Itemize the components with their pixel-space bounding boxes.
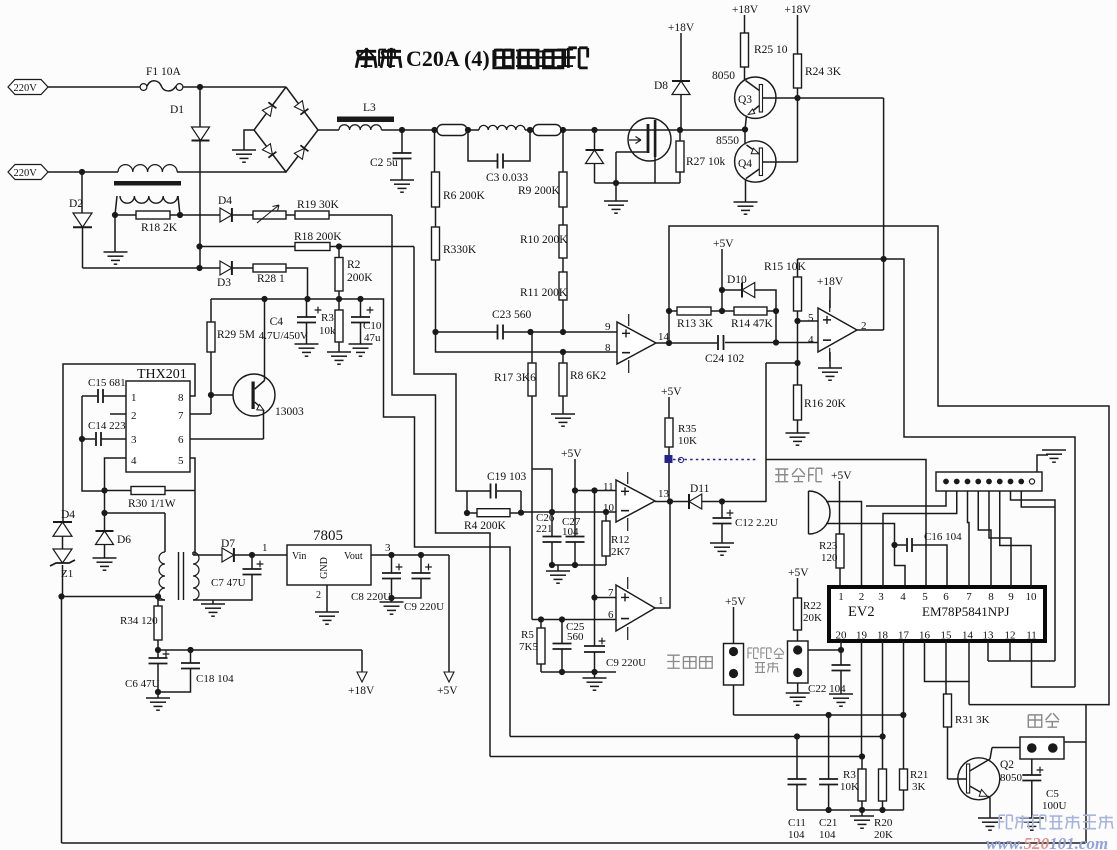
- connector display header: [936, 472, 1042, 491]
- wire left tall column: [61, 597, 63, 844]
- title text: [356, 46, 588, 71]
- svg-text:D4: D4: [61, 509, 75, 521]
- svg-text:8050: 8050: [712, 70, 735, 82]
- node 13003 base: [208, 392, 214, 398]
- svg-text:5: 5: [922, 591, 928, 603]
- svg-text:4: 4: [131, 455, 137, 467]
- wire R24-Q4 base column: [797, 88, 799, 162]
- label fan: [1028, 713, 1059, 727]
- svg-text:1: 1: [658, 595, 664, 607]
- bridge diode bottom-left: [262, 144, 276, 158]
- resistor R31 3K: [944, 694, 990, 727]
- resistor R14 47K: [722, 307, 776, 330]
- capacitor C11 104: [788, 737, 807, 842]
- diode D7: [221, 538, 235, 562]
- svg-text:+18V: +18V: [732, 4, 759, 16]
- node C18 top: [187, 647, 193, 653]
- wire R11 down to node9: [562, 300, 564, 332]
- ground C12: [710, 543, 734, 555]
- wire top bus (op1 out loop): [669, 226, 1109, 706]
- wire link col 11-7: [594, 491, 596, 598]
- wire fanout d2 pin3: [883, 491, 957, 587]
- ground C7: [201, 600, 225, 616]
- wire pins 12 13 gnd: [988, 641, 1055, 661]
- svg-text:1: 1: [131, 392, 137, 404]
- svg-text:C21: C21: [819, 817, 837, 829]
- node R13-R14: [719, 308, 725, 314]
- resistor R10 200K: [520, 207, 568, 258]
- node C12 top: [719, 498, 725, 504]
- resistor R13 3K: [669, 307, 722, 330]
- svg-text:200K: 200K: [347, 272, 373, 284]
- capacitor C21 104: [819, 715, 838, 841]
- wire pin8 loop: [63, 364, 195, 521]
- power +5V buzzer: [831, 470, 852, 534]
- node C9 top: [418, 552, 424, 558]
- node op13 out: [667, 498, 673, 504]
- ground bridge: [232, 150, 256, 162]
- wire R17 lower column: [531, 396, 533, 620]
- terminal 220V line: [8, 80, 48, 95]
- diode D6: [96, 513, 132, 558]
- blue marker line: [665, 455, 759, 463]
- svg-text:R330K: R330K: [443, 244, 477, 256]
- svg-text:+5V: +5V: [561, 448, 582, 460]
- ground 7805: [315, 612, 339, 624]
- svg-text:R28 1: R28 1: [257, 273, 285, 285]
- ground connector: [1037, 450, 1066, 472]
- svg-text:10: 10: [1026, 591, 1038, 603]
- ground Q2: [978, 818, 1002, 830]
- svg-text:8: 8: [178, 392, 184, 404]
- label power-tube temp: [748, 648, 784, 672]
- svg-text:R25 10: R25 10: [754, 44, 788, 56]
- wire R18-2K row: [115, 214, 220, 216]
- wire bottom sub rail: [797, 809, 904, 811]
- wire pin17 column: [903, 641, 905, 715]
- capacitor C16 104: [895, 531, 963, 587]
- svg-text:3: 3: [385, 542, 391, 554]
- wire R6-R330K: [435, 207, 437, 227]
- svg-text:C15 681: C15 681: [88, 377, 126, 389]
- node C10 junction: [357, 296, 363, 302]
- svg-text:R9 200K: R9 200K: [518, 185, 561, 197]
- ground subrail: [850, 810, 874, 828]
- wire Q3 base row: [763, 97, 884, 99]
- svg-text:2: 2: [131, 410, 137, 422]
- ground Q4: [734, 202, 758, 214]
- ground R16: [786, 433, 810, 445]
- svg-text:R12: R12: [611, 534, 629, 546]
- svg-text:7: 7: [966, 591, 972, 603]
- IC 7805 box: [287, 528, 371, 585]
- zener Z1: [50, 549, 75, 596]
- wire R25 to Q3: [744, 67, 746, 80]
- node R12 top: [603, 509, 609, 515]
- power +5V C27: [561, 448, 582, 491]
- svg-text:10K: 10K: [678, 435, 697, 447]
- node R8 row9: [560, 329, 566, 335]
- resistor R6 200K: [432, 172, 486, 207]
- svg-text:R10 200K: R10 200K: [520, 234, 568, 246]
- potentiometer RP: [232, 205, 286, 223]
- svg-text:R4 200K: R4 200K: [464, 520, 507, 532]
- jumper oval 2: [533, 125, 561, 136]
- capacitor C15 681: [82, 377, 126, 403]
- diode D1: [170, 104, 210, 141]
- node R30 left: [101, 487, 107, 493]
- wire pin15 column: [945, 641, 947, 694]
- svg-text:C20A (4): C20A (4): [406, 46, 490, 71]
- wire left rail to transformer: [62, 596, 159, 598]
- svg-text:8550: 8550: [716, 135, 739, 147]
- diode D4 big: [53, 522, 72, 549]
- wire bottom rail: [62, 842, 1087, 844]
- svg-text:R11 200K: R11 200K: [520, 287, 568, 299]
- node Vin: [249, 552, 255, 558]
- transistor V1 IGBT: [616, 118, 671, 183]
- svg-text:R24 3K: R24 3K: [805, 66, 842, 78]
- wire conn2 to pin20: [808, 649, 841, 651]
- wire conn1 to rail: [733, 685, 735, 715]
- transformer T1 core: [179, 552, 184, 600]
- wire fanout d5 pin9: [989, 491, 1011, 587]
- wire row10: [521, 511, 617, 513]
- resistor R15 10K: [764, 259, 807, 321]
- svg-text:R22: R22: [803, 600, 821, 612]
- connector pins: [943, 479, 1035, 485]
- svg-text:R14 47K: R14 47K: [731, 318, 774, 330]
- svg-text:C11: C11: [788, 817, 806, 829]
- svg-text:C24 102: C24 102: [705, 353, 745, 365]
- wire R330K down: [435, 260, 437, 332]
- svg-text:8: 8: [605, 342, 611, 354]
- wire R15 to +in: [798, 320, 819, 322]
- svg-text:R2: R2: [347, 259, 361, 271]
- capacitor C27 104: [562, 491, 585, 566]
- wire pin19 column: [861, 641, 863, 757]
- resistor R3b 10K: [840, 757, 866, 811]
- diode D10: [722, 274, 776, 343]
- node subrail R3: [859, 807, 865, 813]
- diode damper: [586, 130, 604, 183]
- resistor R23 120: [819, 534, 844, 587]
- svg-text:R31 3K: R31 3K: [955, 714, 990, 726]
- diode D4 small: [218, 195, 232, 222]
- label buzzer: [775, 468, 822, 481]
- svg-text:+5V: +5V: [725, 596, 746, 608]
- ground caps: [546, 565, 570, 583]
- node C14 left: [79, 436, 85, 442]
- wire pin5 signal row: [766, 460, 926, 588]
- wire fan bus: [969, 704, 1109, 706]
- svg-text:7: 7: [608, 587, 614, 599]
- wire C15/C14 left column: [82, 396, 105, 491]
- wire R18-200K row: [200, 246, 415, 248]
- wire R19 to bus: [329, 214, 392, 216]
- svg-text:C5: C5: [1046, 788, 1059, 800]
- svg-text:C2 5u: C2 5u: [370, 157, 398, 169]
- transistor Q4 8550: [735, 130, 798, 203]
- node R27 top: [677, 127, 683, 133]
- svg-text:+5V: +5V: [831, 470, 852, 482]
- wire fanout d4 pin8: [978, 491, 991, 587]
- wire fb column: [765, 363, 767, 502]
- op-amp U1C: [603, 472, 670, 531]
- diode D8: [654, 33, 690, 130]
- wire pin16 link: [925, 641, 970, 682]
- watermark site name: [999, 815, 1112, 828]
- svg-text:13003: 13003: [275, 406, 304, 418]
- node C8 top: [388, 552, 394, 558]
- svg-text:7: 7: [178, 410, 184, 422]
- node C24 right: [773, 339, 779, 345]
- svg-text:6: 6: [178, 434, 184, 446]
- bridge diode bottom-right: [294, 145, 308, 159]
- connector fan: [1020, 737, 1064, 759]
- ground C2: [390, 180, 414, 192]
- svg-text:R19 30K: R19 30K: [297, 199, 340, 211]
- wire pin2 stub: [110, 413, 126, 415]
- capacitor C2 5u: [370, 130, 412, 180]
- wire bottom rail ops: [541, 671, 616, 673]
- node rail756 end: [859, 753, 865, 759]
- svg-text:R23: R23: [819, 540, 838, 552]
- svg-text:+5V: +5V: [788, 567, 809, 579]
- svg-text:+18V: +18V: [784, 4, 811, 16]
- capacitor C9 220U: [392, 555, 445, 613]
- node R2 top: [336, 243, 342, 249]
- label D4 zener: [61, 509, 75, 521]
- capacitor C23 560: [492, 309, 532, 340]
- svg-text:R34 120: R34 120: [120, 615, 158, 627]
- svg-text:10K: 10K: [840, 781, 859, 793]
- capacitor C12 2.2U: [713, 502, 778, 544]
- node R5 top: [538, 616, 544, 622]
- node R4 right: [518, 510, 524, 516]
- wire row7: [595, 597, 617, 599]
- node fuse-D1: [197, 84, 203, 90]
- resistor R20 20K: [874, 737, 893, 842]
- node R34 bottom: [155, 647, 161, 653]
- node R8 top: [560, 349, 566, 355]
- resistor R29 5M: [207, 299, 255, 414]
- svg-text:8: 8: [988, 591, 994, 603]
- power +5V R22: [788, 567, 809, 598]
- svg-text:R29 5M: R29 5M: [217, 329, 255, 341]
- wire D3 row: [83, 267, 221, 269]
- svg-text:Q3: Q3: [738, 94, 752, 106]
- svg-text:Vin: Vin: [292, 551, 306, 562]
- label F1 10A: [146, 66, 182, 78]
- svg-text:13: 13: [983, 630, 995, 642]
- wire pin18 column: [882, 641, 884, 737]
- svg-text:Vout: Vout: [344, 551, 363, 562]
- capacitor C10 47u: [351, 299, 382, 344]
- node divider: [432, 329, 438, 335]
- wire buzzer bottom stub: [826, 524, 895, 546]
- node sec left: [112, 212, 118, 218]
- wire Vout row: [371, 542, 449, 555]
- transformer CT primary: [118, 165, 177, 172]
- svg-text:4.7U/450V: 4.7U/450V: [259, 330, 308, 342]
- IC THX201 box: [126, 367, 190, 472]
- svg-text:19: 19: [856, 630, 868, 642]
- ground gate rail: [604, 183, 628, 213]
- capacitor C19 103: [467, 471, 527, 499]
- node subrail R20: [879, 807, 885, 813]
- power +18V D8: [668, 22, 695, 34]
- wire fb tap: [766, 321, 798, 363]
- svg-text:4: 4: [808, 334, 814, 346]
- node C26 top: [549, 509, 555, 515]
- svg-text:R8 6K2: R8 6K2: [570, 370, 606, 382]
- svg-text:C18 104: C18 104: [196, 673, 234, 685]
- wire 7805 gnd: [316, 585, 327, 612]
- wire rail 736: [510, 736, 883, 738]
- transformer CT core: [114, 181, 181, 186]
- node op2 plus in: [794, 318, 800, 324]
- wire fan right: [1064, 741, 1086, 743]
- inductor L3: [337, 102, 394, 130]
- svg-text:+5V: +5V: [713, 238, 734, 250]
- wire fanout d3 pin7: [968, 491, 970, 587]
- node C8 bottom: [388, 595, 394, 601]
- node R17 top: [527, 329, 533, 335]
- svg-text:13: 13: [658, 488, 670, 500]
- op-amp U1D: [608, 577, 664, 640]
- ground op2: [818, 352, 842, 380]
- resistor R3 10k top: [319, 299, 343, 352]
- wire row 299: [211, 298, 361, 300]
- svg-text:3K: 3K: [912, 781, 926, 793]
- label 8550 Q4: [716, 135, 739, 147]
- wire row seg1: [467, 129, 479, 131]
- svg-text:Q2: Q2: [1000, 759, 1014, 771]
- ground opamp rail: [583, 672, 607, 690]
- svg-text:+18V: +18V: [668, 22, 695, 34]
- diode D11: [670, 483, 722, 509]
- svg-text:L3: L3: [363, 102, 376, 114]
- svg-text:C22 104: C22 104: [808, 683, 846, 695]
- node drive-Q3Q4: [881, 256, 887, 262]
- capacitor C3 0.033: [468, 130, 530, 184]
- wire fanout d8: [1021, 491, 1055, 507]
- wire buzzer top stub: [826, 502, 862, 588]
- capacitor C6 47U: [125, 650, 169, 692]
- capacitor C26 221: [536, 512, 562, 565]
- svg-text:F1 10A: F1 10A: [146, 66, 182, 78]
- node left column bottom: [58, 593, 64, 599]
- node damper top: [591, 127, 597, 133]
- svg-text:R15 10K: R15 10K: [764, 261, 807, 273]
- resistor R35 10K: [665, 418, 697, 502]
- label pan temp: [667, 655, 712, 668]
- THX201 pin numbers: [131, 392, 184, 467]
- node R4 left: [464, 510, 470, 516]
- wire row11: [575, 490, 617, 492]
- node rail715 end: [900, 712, 906, 718]
- svg-text:9: 9: [1008, 591, 1014, 603]
- svg-text:14: 14: [962, 630, 974, 642]
- svg-text:120: 120: [821, 552, 838, 564]
- node C25 bottom: [559, 669, 565, 675]
- ground C4: [295, 344, 319, 356]
- wire pin14 column: [968, 641, 970, 705]
- inductor L2 choke: [479, 125, 525, 130]
- resistor R12 2K7: [602, 512, 630, 565]
- ground D6: [93, 558, 117, 570]
- node row11-row7 link: [591, 487, 597, 493]
- IC EV2 EM78P5841NPJ: [829, 587, 1045, 641]
- svg-text:C8 220U: C8 220U: [351, 591, 391, 603]
- svg-text:12: 12: [1005, 630, 1016, 642]
- resistor R21 3K: [900, 715, 929, 810]
- svg-text:C12 2.2U: C12 2.2U: [735, 517, 778, 529]
- svg-text:C9 220U: C9 220U: [404, 601, 444, 613]
- resistor R11 200K: [520, 258, 568, 300]
- node R28 junction: [304, 296, 310, 302]
- svg-text:7805: 7805: [313, 528, 343, 544]
- resistor R18 200K: [294, 231, 342, 251]
- label 8050 Q3: [712, 70, 735, 82]
- node op1 out: [666, 340, 672, 346]
- power +5V D10: [713, 238, 734, 311]
- transistor Q2 8050: [958, 748, 1023, 819]
- node row7 link: [591, 594, 597, 600]
- resistor R17 3K6: [494, 332, 536, 396]
- svg-text:R21: R21: [910, 769, 928, 781]
- op-amp U2: [808, 300, 867, 361]
- wire mains N input: [47, 171, 286, 173]
- wire D1 column: [199, 87, 201, 268]
- resistor R4 200K: [464, 491, 521, 532]
- svg-text:2K7: 2K7: [611, 546, 630, 558]
- svg-text:6: 6: [943, 591, 949, 603]
- wire pin4: [105, 458, 127, 491]
- svg-text:3: 3: [131, 434, 137, 446]
- node C25 top: [559, 616, 565, 622]
- wire op13 out: [655, 501, 670, 503]
- bridge diode top-left: [262, 102, 276, 116]
- svg-text:R30 1/1W: R30 1/1W: [128, 498, 176, 510]
- svg-text:20K: 20K: [803, 612, 822, 624]
- node R13 left: [666, 308, 672, 314]
- svg-text:D10: D10: [727, 274, 747, 286]
- capacitor C25 560: [553, 620, 585, 673]
- node R16 top: [794, 360, 800, 366]
- svg-text:C16 104: C16 104: [924, 531, 962, 543]
- svg-text:8050: 8050: [1000, 772, 1023, 784]
- node C6 bottom: [155, 689, 161, 695]
- svg-text:R13 3K: R13 3K: [677, 318, 714, 330]
- svg-text:THX201: THX201: [137, 367, 187, 382]
- wire op3 out up: [655, 502, 670, 609]
- capacitor C8 220U: [351, 555, 402, 603]
- node subrail C21: [826, 807, 832, 813]
- svg-text:C23 560: C23 560: [492, 309, 532, 321]
- wire drive bus (R15 row): [798, 259, 1076, 687]
- ground CT: [104, 215, 128, 264]
- resistor R25 10: [741, 15, 788, 67]
- capacitor C9b 220U: [584, 598, 646, 673]
- power +5V R35: [661, 386, 682, 418]
- wire R28 to row299: [286, 268, 308, 299]
- power +5V arrow: [437, 555, 458, 697]
- svg-text:10k: 10k: [319, 325, 336, 337]
- label pin1 7805: [262, 542, 268, 554]
- svg-text:104: 104: [562, 526, 579, 538]
